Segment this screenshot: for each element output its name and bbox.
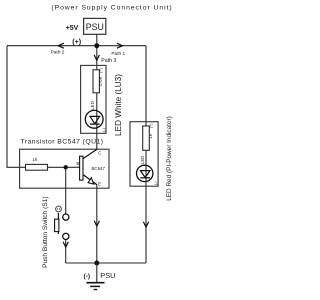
LED unit LU3 box	[81, 65, 106, 133]
LED red symbol circle	[137, 165, 153, 181]
resistor 1K red	[143, 126, 150, 150]
transistor collector line	[83, 149, 97, 158]
node base junction	[63, 165, 67, 169]
wire bottom bus	[66, 262, 146, 264]
svg-text:BC547: BC547	[91, 166, 105, 171]
wire switch column	[65, 167, 67, 214]
transistor base bar	[80, 156, 83, 180]
LED white symbol circle	[85, 110, 103, 128]
svg-text:B: B	[76, 161, 79, 166]
flow arrow Path 2	[58, 43, 64, 48]
svg-text:(+): (+)	[99, 67, 103, 72]
svg-text:PSU: PSU	[86, 22, 104, 32]
wire base resistor link	[48, 166, 80, 168]
flow arrow emitter down	[94, 221, 99, 226]
svg-text:1K: 1K	[148, 133, 153, 138]
svg-text:(+): (+)	[72, 37, 82, 46]
LED white triangle	[90, 116, 100, 123]
ground	[96, 263, 98, 283]
svg-text:(-): (-)	[84, 273, 91, 280]
LED red triangle	[140, 171, 150, 178]
wire center column upper	[96, 46, 98, 150]
wire top horizontal bus	[7, 45, 146, 47]
svg-text:E: E	[98, 181, 101, 186]
flow arrow right rail down	[143, 222, 148, 227]
transistor emitter line	[83, 175, 97, 185]
LED white cathode bar	[90, 123, 100, 125]
svg-text:LED: LED	[90, 101, 95, 110]
svg-text:LED Red (PI-Power Indicator): LED Red (PI-Power Indicator)	[166, 116, 173, 201]
svg-text:LED White (LU3): LED White (LU3)	[114, 74, 123, 136]
flow arrow Path 1	[117, 43, 123, 48]
svg-text:1K: 1K	[32, 157, 37, 162]
LED red unit box	[130, 122, 158, 187]
svg-text:PSU: PSU	[100, 271, 115, 280]
pushbutton S1 button icon	[56, 206, 62, 212]
svg-text:(-): (-)	[102, 127, 106, 132]
svg-text:Path 2: Path 2	[51, 50, 65, 56]
node bottom junction	[94, 261, 99, 266]
svg-text:LED: LED	[140, 156, 145, 165]
flow arrow Path 3	[94, 55, 99, 60]
svg-text:Push Button Switch (S1): Push Button Switch (S1)	[42, 196, 49, 267]
resistor 1K base	[26, 164, 48, 170]
wire PSU to node	[96, 34, 98, 45]
flow arrow switch down	[63, 242, 68, 247]
svg-text:(+): (+)	[149, 123, 153, 128]
svg-text:+5V: +5V	[66, 25, 79, 32]
node top junction	[94, 43, 99, 48]
svg-text:Path 3: Path 3	[101, 58, 116, 64]
transistor QU1 box	[20, 149, 109, 188]
wire switch to bottom bus	[65, 240, 67, 264]
pushbutton S1 top contact	[63, 214, 69, 220]
wire right rail	[145, 46, 147, 263]
pushbutton S1 stem bar	[57, 213, 59, 234]
transistor emitter arrowhead	[88, 178, 94, 184]
wire left rail	[7, 46, 26, 168]
pushbutton S1 cap	[55, 219, 59, 232]
wire emitter column lower	[96, 185, 98, 264]
svg-text:C: C	[98, 151, 101, 156]
svg-text:(Power Supply Connector Unit): (Power Supply Connector Unit)	[51, 5, 172, 12]
svg-text:470R: 470R	[98, 76, 103, 86]
pushbutton S1 bottom contact	[63, 233, 69, 239]
power supply box PSU	[84, 18, 106, 34]
LED red cathode bar	[140, 177, 150, 179]
svg-text:Transistor BC547 (QU1): Transistor BC547 (QU1)	[21, 139, 104, 146]
svg-text:Path 1: Path 1	[111, 51, 125, 57]
resistor 470R	[93, 70, 99, 93]
